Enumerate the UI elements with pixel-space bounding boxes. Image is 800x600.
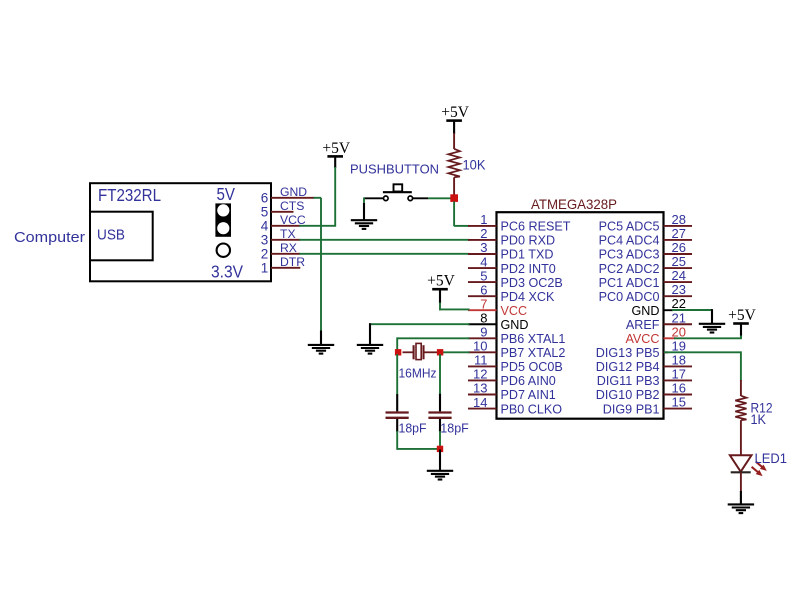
svg-text:5: 5 xyxy=(261,204,269,219)
svg-text:14: 14 xyxy=(473,395,487,410)
jumper block J1 xyxy=(215,203,231,236)
svg-text:PD2 INT0: PD2 INT0 xyxy=(501,262,556,276)
pushbutton right lead xyxy=(413,197,429,199)
wire +5V to AVCC corner xyxy=(740,336,742,339)
svg-text:4: 4 xyxy=(261,218,269,233)
wire VCC pin4 horizontal xyxy=(299,225,336,227)
svg-text:PC6 RESET: PC6 RESET xyxy=(501,220,571,234)
wire GND pin6 horizontal xyxy=(314,197,322,199)
FT232RL IC box U2 xyxy=(90,183,271,281)
ATMEGA pin 4 stub xyxy=(468,267,497,269)
svg-text:5: 5 xyxy=(480,268,487,283)
svg-text:2: 2 xyxy=(480,226,487,241)
ATMEGA pin 26 stub xyxy=(664,253,693,255)
svg-text:18pF: 18pF xyxy=(440,421,469,436)
ATMEGA pin 1 stub xyxy=(468,225,497,227)
power +5V symbol near FT232RL xyxy=(322,140,350,157)
ATMEGA pin 20 stub xyxy=(664,337,676,339)
svg-text:GND: GND xyxy=(632,304,660,318)
ground crystal caps xyxy=(427,471,453,480)
ATMEGA pin 3 stub xyxy=(468,253,497,255)
wire RX to PD1 TXD xyxy=(299,253,469,255)
svg-text:28: 28 xyxy=(672,212,686,227)
capacitor C2 bottom plate xyxy=(428,417,451,419)
svg-text:PB0 CLKO: PB0 CLKO xyxy=(501,402,563,416)
svg-text:PC2 ADC2: PC2 ADC2 xyxy=(599,262,660,276)
ATMEGA pin 13 stub xyxy=(468,394,497,396)
+5V stub near AVCC xyxy=(740,325,742,337)
FT232RL pin 5 CTS stub xyxy=(271,211,294,213)
ground lead pushbutton xyxy=(363,203,365,219)
capacitor C1 top lead xyxy=(396,394,398,411)
svg-text:1K: 1K xyxy=(751,412,767,427)
svg-text:1: 1 xyxy=(261,260,269,275)
wire AVCC pin 20 xyxy=(674,337,742,339)
svg-text:PD6 AIN0: PD6 AIN0 xyxy=(501,374,556,388)
svg-text:GND: GND xyxy=(501,318,529,332)
svg-text:USB: USB xyxy=(97,228,125,244)
jumper pad 1 xyxy=(217,204,229,216)
LED1 arrow lower xyxy=(752,467,763,476)
ground lead FT232RL xyxy=(320,331,322,345)
junction caps ground xyxy=(437,446,443,452)
FT232RL pin 1 DTR stub xyxy=(271,267,300,269)
wire GND pin6 vertical xyxy=(320,198,322,332)
FT232RL pin 2 RX stub xyxy=(271,253,300,255)
+5V stub near pin 7 xyxy=(439,290,441,304)
svg-text:18pF: 18pF xyxy=(399,421,427,436)
svg-text:VCC: VCC xyxy=(501,304,528,318)
capacitor C1 bottom lead xyxy=(396,419,398,432)
svg-text:25: 25 xyxy=(672,254,686,269)
svg-text:18: 18 xyxy=(672,352,686,367)
power +5V symbol near AVCC xyxy=(728,307,756,324)
power +5V symbol near VCC pin 7 xyxy=(427,273,455,290)
crystal Q1 body xyxy=(416,343,421,359)
svg-text:11: 11 xyxy=(474,353,488,368)
pushbutton left contact xyxy=(384,196,389,201)
junction node A xyxy=(450,194,458,202)
wire pushbutton to node A xyxy=(428,197,452,199)
wire node A to RESET pin 1 xyxy=(454,225,469,227)
capacitor C2 top lead xyxy=(439,394,441,412)
pushbutton left lead xyxy=(364,197,383,199)
pad 3.3V xyxy=(217,244,230,257)
svg-text:Computer: Computer xyxy=(14,229,85,246)
ATMEGA pin 10 stub xyxy=(468,351,497,353)
wire C1 down xyxy=(396,431,398,450)
ground FT232RL GND xyxy=(308,345,334,354)
ATMEGA pin 11 stub xyxy=(468,365,497,367)
svg-text:8: 8 xyxy=(480,310,487,325)
pushbutton actuator bar xyxy=(383,191,412,193)
capacitor C1 bottom plate xyxy=(386,417,409,419)
svg-text:9: 9 xyxy=(480,325,487,340)
resistor 10K body xyxy=(448,149,460,178)
ground ATMEGA pin 22 xyxy=(699,324,725,333)
ground lead pin 8 xyxy=(369,323,371,344)
power +5V symbol above 10K xyxy=(441,104,469,121)
wire TX to PD0 RXD xyxy=(299,239,469,241)
LED1 bottom lead xyxy=(740,472,742,492)
resistor 10K top lead xyxy=(453,133,455,149)
crystal Q1 left lead xyxy=(403,351,413,353)
svg-text:6: 6 xyxy=(261,190,269,205)
ATMEGA pin 22 stub xyxy=(664,309,674,311)
capacitor C2 top plate xyxy=(428,411,451,413)
svg-text:16MHz: 16MHz xyxy=(399,366,437,381)
ATMEGA pin 19 stub xyxy=(664,351,669,353)
svg-text:PC3 ADC3: PC3 ADC3 xyxy=(599,248,660,262)
capacitor C1 top plate xyxy=(386,411,409,413)
svg-text:6: 6 xyxy=(480,282,487,297)
ATMEGA pin 23 stub xyxy=(664,295,693,297)
ATMEGA pin 25 stub xyxy=(664,267,693,269)
svg-text:+5V: +5V xyxy=(427,273,455,290)
svg-text:DIG13 PB5: DIG13 PB5 xyxy=(596,346,660,360)
+5V stub above 10K xyxy=(453,122,455,135)
wire to VCC pin 7 xyxy=(439,308,469,310)
LED1 arrow upper xyxy=(756,462,767,471)
svg-text:PD1 TXD: PD1 TXD xyxy=(501,248,554,262)
jumper pad 2 xyxy=(217,222,229,234)
svg-text:2: 2 xyxy=(261,246,269,261)
svg-text:PC4 ADC4: PC4 ADC4 xyxy=(599,234,660,248)
ground lead LED xyxy=(740,491,742,504)
svg-text:DIG11 PB3: DIG11 PB3 xyxy=(597,374,660,388)
svg-text:20: 20 xyxy=(672,324,686,339)
svg-text:13: 13 xyxy=(473,381,487,396)
svg-text:+5V: +5V xyxy=(728,307,756,324)
ground lead pin 22 xyxy=(711,309,713,323)
svg-text:+5V: +5V xyxy=(441,104,469,121)
LED1 cathode bar xyxy=(731,471,751,473)
ATMEGA pin 21 stub xyxy=(664,323,693,325)
ATMEGA pin 12 stub xyxy=(468,379,497,381)
pushbutton right contact xyxy=(408,196,413,201)
ATMEGA pin 5 stub xyxy=(468,281,497,283)
resistor R12 body xyxy=(735,396,746,421)
ground pushbutton xyxy=(351,220,377,229)
svg-text:PC0 ADC0: PC0 ADC0 xyxy=(599,290,660,304)
ground ATMEGA pin 8 xyxy=(357,345,383,354)
svg-text:ATMEGA328P: ATMEGA328P xyxy=(531,196,617,212)
ATMEGA pin 7 stub xyxy=(468,309,497,311)
wire crystal right down to C2 xyxy=(439,354,441,395)
svg-text:16: 16 xyxy=(672,381,686,396)
svg-text:DIG12 PB4: DIG12 PB4 xyxy=(596,360,660,374)
svg-text:10: 10 xyxy=(473,339,487,354)
svg-text:12: 12 xyxy=(473,367,487,382)
svg-text:1: 1 xyxy=(480,212,487,227)
svg-text:AVCC: AVCC xyxy=(625,332,659,346)
junction crystal right xyxy=(437,349,443,355)
svg-text:3.3V: 3.3V xyxy=(211,261,243,281)
ATMEGA pin 28 stub xyxy=(664,225,693,227)
wire node A down xyxy=(453,202,455,227)
svg-text:LED1: LED1 xyxy=(755,451,788,466)
wire XTAL2 pin 10 xyxy=(439,351,469,353)
wire GND pin 22 xyxy=(672,309,712,311)
crystal Q1 right lead xyxy=(424,351,437,353)
svg-text:27: 27 xyxy=(672,226,686,241)
wire crystal left down to C1 xyxy=(396,354,398,395)
crystal Q1 left plate xyxy=(413,345,415,359)
svg-text:23: 23 xyxy=(672,282,686,297)
wire VCC vertical xyxy=(334,167,336,226)
ATMEGA pin 6 stub xyxy=(468,295,497,297)
svg-text:PD5 OC0B: PD5 OC0B xyxy=(501,360,563,374)
svg-text:4: 4 xyxy=(480,254,487,269)
wire DIG13 pin 19 horizontal xyxy=(664,351,741,353)
crystal Q1 right plate xyxy=(422,345,424,359)
svg-text:PC1 ADC1: PC1 ADC1 xyxy=(599,276,660,290)
ATMEGA pin 18 stub xyxy=(664,365,693,367)
resistor 10K bottom lead xyxy=(453,177,455,195)
svg-text:21: 21 xyxy=(672,310,686,325)
FT232RL pin 6 GND stub xyxy=(271,197,315,199)
+5V stub to VCC net xyxy=(334,158,336,169)
pushbutton actuator cap xyxy=(394,184,403,191)
svg-text:22: 22 xyxy=(672,296,686,311)
capacitor C2 bottom lead xyxy=(439,419,441,432)
FT232RL pin 4 VCC stub xyxy=(271,225,300,227)
svg-text:3: 3 xyxy=(261,232,269,247)
svg-text:17: 17 xyxy=(672,366,686,381)
svg-text:PB7 XTAL2: PB7 XTAL2 xyxy=(501,346,566,360)
wire +5V to VCC corner xyxy=(439,303,441,311)
svg-text:+5V: +5V xyxy=(322,140,350,157)
ATMEGA pin 2 stub xyxy=(468,239,497,241)
svg-text:DIG9 PB1: DIG9 PB1 xyxy=(603,402,660,416)
ATMEGA pin 8 stub xyxy=(468,323,497,325)
svg-text:15: 15 xyxy=(672,395,686,410)
ATMEGA pin 27 stub xyxy=(664,239,693,241)
svg-text:PB6 XTAL1: PB6 XTAL1 xyxy=(501,332,566,346)
svg-text:PD7 AIN1: PD7 AIN1 xyxy=(501,388,556,402)
ATMEGA pin 15 stub xyxy=(664,408,693,410)
svg-text:24: 24 xyxy=(672,268,686,283)
svg-text:19: 19 xyxy=(672,338,686,353)
svg-text:26: 26 xyxy=(672,240,686,255)
wire C2 down xyxy=(439,431,441,450)
resistor R12 bottom lead xyxy=(740,420,742,455)
wire pushbutton ground corner xyxy=(363,197,365,204)
FT232RL pin 3 TX stub xyxy=(271,239,300,241)
svg-text:5V: 5V xyxy=(217,184,236,204)
ATMEGA pin 14 stub xyxy=(468,408,497,410)
junction crystal left xyxy=(395,349,401,355)
ATMEGA pin 16 stub xyxy=(664,394,693,396)
svg-text:7: 7 xyxy=(480,296,487,311)
svg-text:DIG10 PB2: DIG10 PB2 xyxy=(596,388,660,402)
svg-text:PC5 ADC5: PC5 ADC5 xyxy=(599,220,660,234)
USB connector box xyxy=(90,212,153,261)
svg-text:3: 3 xyxy=(480,240,487,255)
svg-text:PUSHBUTTON: PUSHBUTTON xyxy=(350,162,439,177)
LED1 triangle xyxy=(730,455,752,471)
wire GND pin 8 xyxy=(369,323,469,325)
svg-text:PD0 RXD: PD0 RXD xyxy=(501,234,556,248)
svg-text:PD4 XCK: PD4 XCK xyxy=(501,290,555,304)
ground LED xyxy=(728,504,754,513)
ATMEGA pin 24 stub xyxy=(664,281,693,283)
resistor R12 top lead xyxy=(740,380,742,396)
wire DIG13 vertical xyxy=(740,351,742,381)
ATMEGA328P IC box U1 xyxy=(497,212,664,419)
ATMEGA pin 9 stub xyxy=(468,337,497,339)
wire caps bottom horizontal xyxy=(397,448,440,450)
svg-text:AREF: AREF xyxy=(626,318,660,332)
ATMEGA pin 17 stub xyxy=(664,379,693,381)
wire XTAL1 pin 9 horizontal xyxy=(397,337,469,339)
wire XTAL1 vertical to crystal xyxy=(396,337,398,353)
svg-text:10K: 10K xyxy=(463,157,487,173)
svg-text:PD3 OC2B: PD3 OC2B xyxy=(501,276,563,290)
svg-text:FT232RL: FT232RL xyxy=(98,185,161,205)
ground lead crystal xyxy=(439,450,441,471)
